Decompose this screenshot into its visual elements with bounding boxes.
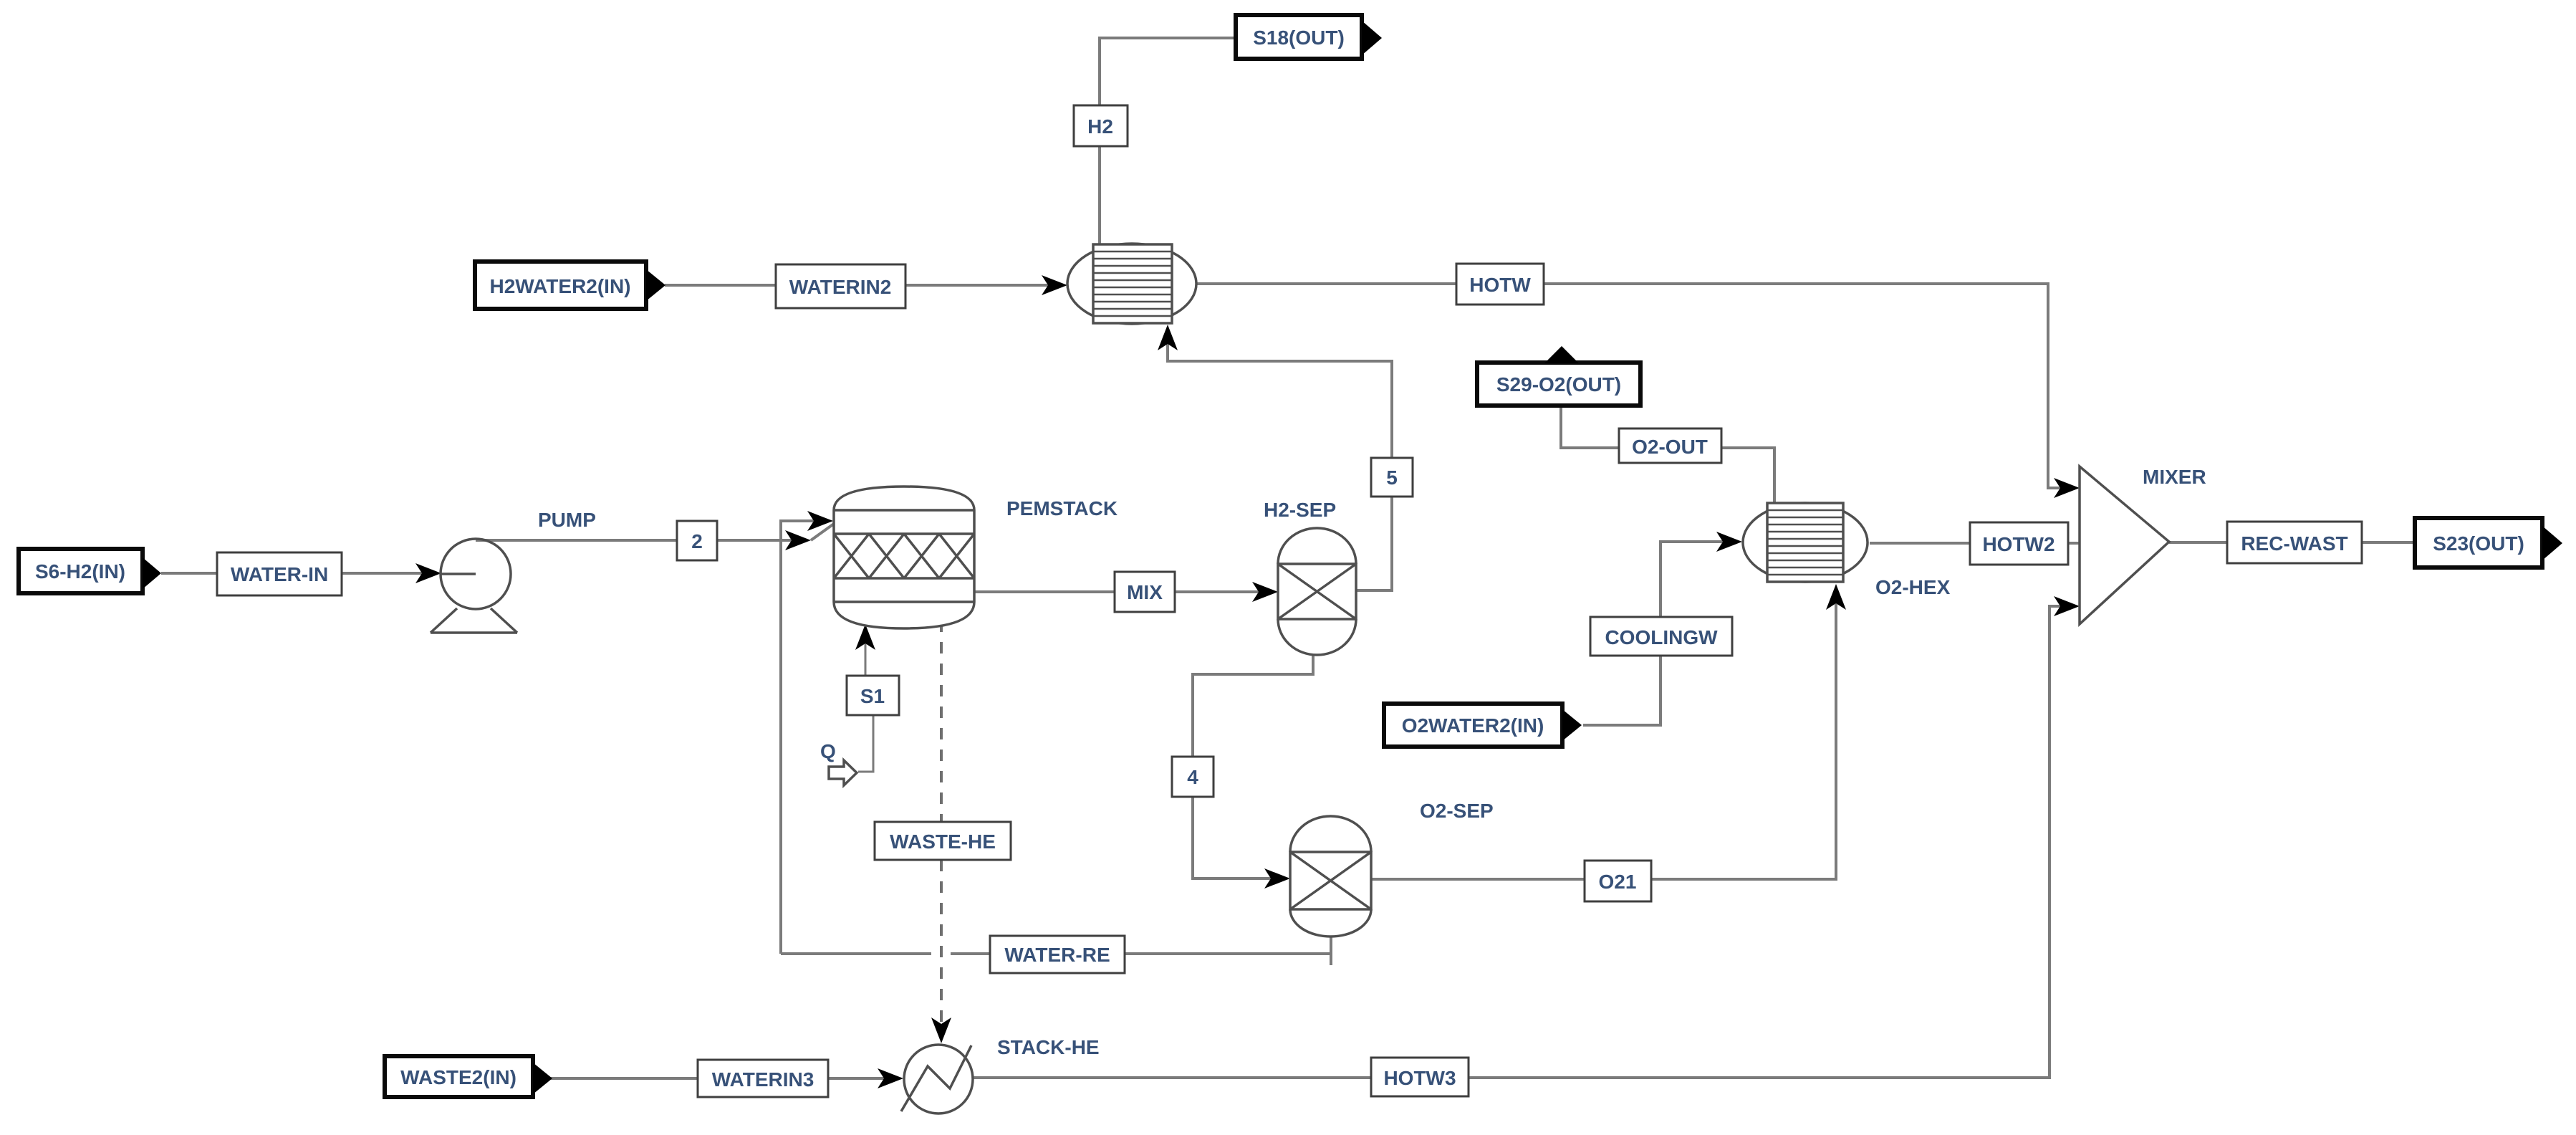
- svg-text:WATERIN3: WATERIN3: [712, 1068, 814, 1091]
- svg-text:WASTE-HE: WASTE-HE: [890, 830, 996, 853]
- svg-text:STACK-HE: STACK-HE: [997, 1036, 1100, 1058]
- svg-text:MIXER: MIXER: [2143, 466, 2206, 488]
- svg-text:COOLINGW: COOLINGW: [1605, 626, 1718, 648]
- svg-text:O2-OUT: O2-OUT: [1632, 436, 1708, 458]
- svg-text:WATER-IN: WATER-IN: [231, 563, 328, 585]
- svg-text:HOTW: HOTW: [1469, 274, 1531, 296]
- svg-text:O21: O21: [1599, 871, 1637, 893]
- svg-text:S18(OUT): S18(OUT): [1253, 27, 1345, 49]
- svg-text:S23(OUT): S23(OUT): [2433, 532, 2524, 555]
- svg-text:WATER-RE: WATER-RE: [1004, 944, 1110, 966]
- svg-text:HOTW3: HOTW3: [1383, 1067, 1456, 1089]
- svg-text:2: 2: [691, 530, 703, 552]
- svg-text:REC-WAST: REC-WAST: [2241, 532, 2347, 555]
- svg-text:PUMP: PUMP: [538, 509, 596, 531]
- svg-text:H2: H2: [1087, 115, 1113, 138]
- svg-text:5: 5: [1386, 466, 1398, 489]
- svg-text:S6-H2(IN): S6-H2(IN): [35, 560, 125, 583]
- svg-text:HOTW2: HOTW2: [1982, 533, 2054, 555]
- svg-text:MIX: MIX: [1127, 581, 1163, 603]
- svg-text:PEMSTACK: PEMSTACK: [1006, 497, 1118, 519]
- svg-text:S29-O2(OUT): S29-O2(OUT): [1496, 373, 1621, 396]
- svg-text:O2WATER2(IN): O2WATER2(IN): [1402, 714, 1544, 737]
- svg-text:Q: Q: [820, 740, 836, 762]
- svg-text:WATERIN2: WATERIN2: [789, 276, 892, 298]
- svg-text:S1: S1: [860, 685, 885, 707]
- svg-text:WASTE2(IN): WASTE2(IN): [400, 1066, 516, 1088]
- svg-text:H2-SEP: H2-SEP: [1264, 499, 1336, 521]
- svg-text:4: 4: [1187, 766, 1198, 788]
- svg-text:H2WATER2(IN): H2WATER2(IN): [489, 275, 630, 297]
- svg-text:O2-SEP: O2-SEP: [1420, 800, 1494, 822]
- svg-text:O2-HEX: O2-HEX: [1875, 576, 1951, 598]
